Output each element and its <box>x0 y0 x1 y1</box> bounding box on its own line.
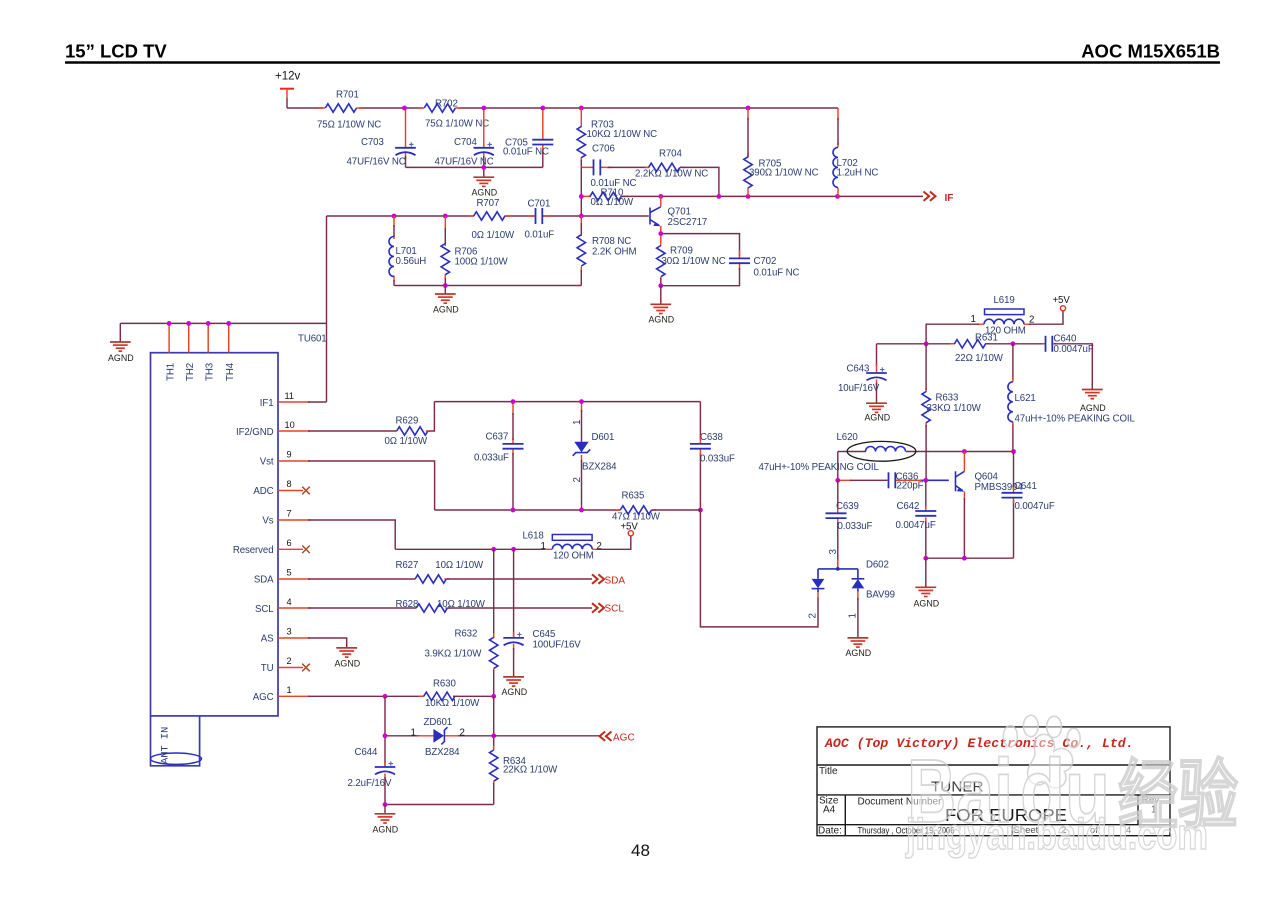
svg-text:15” LCD TV: 15” LCD TV <box>65 41 167 62</box>
wire TH ground rail <box>120 322 326 324</box>
watermark baidu <box>905 715 1238 859</box>
svg-text:Date:: Date: <box>818 826 842 837</box>
svg-text:D602: D602 <box>866 560 889 571</box>
wire middle box top rail <box>434 401 700 403</box>
svg-text:BAV99: BAV99 <box>866 590 895 601</box>
wire C636 to Q604 base <box>920 479 949 481</box>
svg-text:AOC M15X651B: AOC M15X651B <box>1081 41 1220 62</box>
svg-text:C637: C637 <box>486 432 509 443</box>
svg-text:jingyan.baidu.com: jingyan.baidu.com <box>905 810 1208 859</box>
svg-text:TU: TU <box>261 663 274 674</box>
wire R704 to IF line <box>680 167 719 196</box>
svg-text:2.2K OHM: 2.2K OHM <box>592 246 636 257</box>
wire C640 to ground <box>1054 344 1092 389</box>
wire R631 to C640 <box>985 343 1046 345</box>
pin 1 AGC <box>253 685 424 703</box>
wire +12v rail <box>287 107 838 109</box>
svg-text:TH2: TH2 <box>185 363 196 381</box>
capacitor C642 <box>896 480 937 558</box>
ground AGND under C645 <box>502 677 528 697</box>
svg-text:AGND: AGND <box>108 353 134 363</box>
svg-text:R629: R629 <box>396 415 419 426</box>
wire R632/R634 vertical <box>493 696 495 750</box>
svg-text:C645: C645 <box>533 629 556 640</box>
transistor Q701 <box>650 196 707 233</box>
svg-text:C638: C638 <box>700 432 723 443</box>
svg-text:SDA: SDA <box>605 575 626 586</box>
svg-text:1: 1 <box>287 685 292 695</box>
svg-text:ANT IN: ANT IN <box>160 727 172 764</box>
svg-text:47uH+-10% PEAKING COIL: 47uH+-10% PEAKING COIL <box>759 462 880 473</box>
wire R629 to box top rail <box>429 402 434 431</box>
resistor R709 <box>657 234 726 286</box>
pin 6 Reserved no-connect <box>233 538 310 556</box>
svg-text:L620: L620 <box>837 432 859 443</box>
wire SCL <box>448 607 592 609</box>
svg-text:C639: C639 <box>836 501 859 512</box>
resistor R633 <box>922 344 982 481</box>
svg-text:48: 48 <box>631 841 650 860</box>
svg-text:6: 6 <box>287 538 292 548</box>
ground AGND for TH pins <box>108 323 134 362</box>
power +12v <box>275 71 301 109</box>
resistor R702 <box>418 99 489 130</box>
svg-text:+5V: +5V <box>621 522 639 533</box>
svg-text:C706: C706 <box>592 144 615 155</box>
pin 10 IF2/GND <box>236 420 397 438</box>
svg-text:1.2uH NC: 1.2uH NC <box>837 167 879 178</box>
svg-text:10KΩ 1/10W: 10KΩ 1/10W <box>425 698 480 709</box>
svg-text:0.0047uF: 0.0047uF <box>1054 344 1094 355</box>
pin 8 ADC no-connect <box>253 479 309 497</box>
svg-text:IF1: IF1 <box>260 398 274 409</box>
svg-text:30Ω 1/10W NC: 30Ω 1/10W NC <box>662 256 726 267</box>
wire C638 node down to D602 <box>700 510 818 627</box>
transistor Q604 <box>956 452 1024 559</box>
resistor R629 <box>385 415 431 447</box>
resistor R704 <box>635 149 708 180</box>
ferrite bead L619 <box>971 295 1035 337</box>
svg-text:390Ω 1/10W NC: 390Ω 1/10W NC <box>749 167 819 178</box>
svg-text:10KΩ 1/10W NC: 10KΩ 1/10W NC <box>587 129 658 140</box>
net AGC arrow <box>600 732 635 744</box>
svg-text:ADC: ADC <box>253 486 273 497</box>
svg-text:22Ω 1/10W: 22Ω 1/10W <box>955 353 1004 364</box>
svg-text:47UF/16V NC: 47UF/16V NC <box>347 157 406 168</box>
svg-text:AGND: AGND <box>649 314 675 324</box>
wire middle box bottom rail <box>435 509 621 511</box>
svg-text:AGND: AGND <box>1080 403 1106 413</box>
wire L619 pin1 to R631 node <box>926 324 979 344</box>
capacitor C641 <box>1002 452 1055 559</box>
svg-text:C703: C703 <box>361 137 384 148</box>
svg-text:D601: D601 <box>592 432 615 443</box>
capacitor C704 <box>435 108 495 168</box>
svg-text:SCL: SCL <box>255 604 274 615</box>
svg-text:Reserved: Reserved <box>233 545 274 556</box>
tuner block TU601 <box>151 334 327 716</box>
svg-text:220pF: 220pF <box>897 481 924 492</box>
ground AGND under C704 <box>472 167 498 197</box>
pin 11 IF1 <box>260 391 327 409</box>
wire AGC node vertical left <box>384 696 386 767</box>
svg-text:2: 2 <box>808 613 819 618</box>
pin 4 SCL <box>255 597 416 615</box>
svg-text:TH1: TH1 <box>166 363 177 381</box>
svg-text:ZD601: ZD601 <box>424 717 453 728</box>
svg-text:4: 4 <box>287 597 292 607</box>
capacitor C702 <box>661 234 800 286</box>
svg-text:11: 11 <box>285 391 295 401</box>
pin TH1 <box>166 321 177 381</box>
ground AGND under Q604 rail <box>914 558 940 608</box>
net IF output arrow <box>924 192 954 204</box>
svg-text:100Ω 1/10W: 100Ω 1/10W <box>455 257 509 268</box>
zener diode ZD601 <box>385 717 494 758</box>
svg-text:SDA: SDA <box>254 574 274 585</box>
svg-text:IF: IF <box>945 193 954 204</box>
svg-text:1: 1 <box>572 420 583 425</box>
svg-text:9: 9 <box>287 450 292 460</box>
svg-text:AGND: AGND <box>865 413 891 423</box>
svg-text:C701: C701 <box>528 199 551 210</box>
svg-text:3.9KΩ 1/10W: 3.9KΩ 1/10W <box>425 648 483 659</box>
capacitor C640 <box>1042 334 1094 355</box>
svg-text:C644: C644 <box>355 747 378 758</box>
wire vertical to R632 <box>493 549 495 637</box>
inductor L702 <box>833 108 878 196</box>
wire vertical to C645 <box>513 549 515 638</box>
svg-text:R630: R630 <box>433 678 456 689</box>
svg-text:10uF/16V: 10uF/16V <box>838 383 880 394</box>
ground AGND under C644 <box>373 805 399 835</box>
ground AGND under R709 <box>649 286 675 325</box>
svg-text:AGND: AGND <box>914 599 940 609</box>
svg-text:10: 10 <box>285 420 295 430</box>
wire vertical from base row to tuner IF1 <box>326 216 328 402</box>
svg-text:R708 NC: R708 NC <box>592 236 631 247</box>
svg-text:0.0047uF: 0.0047uF <box>896 520 936 531</box>
svg-text:2.2uF/16V: 2.2uF/16V <box>348 778 392 789</box>
svg-text:33KΩ 1/10W: 33KΩ 1/10W <box>927 403 982 414</box>
svg-text:2: 2 <box>287 656 292 666</box>
dual diode D602 BAV99 <box>808 549 895 619</box>
svg-text:L619: L619 <box>994 295 1015 306</box>
pin 7 Vs <box>262 509 395 550</box>
resistor R706 <box>441 216 508 286</box>
wire AGC bottom rail <box>385 804 494 806</box>
svg-text:C702: C702 <box>754 256 777 267</box>
net SDA arrow <box>592 574 625 586</box>
wire AGC net long <box>494 735 600 737</box>
svg-text:R702: R702 <box>435 99 458 110</box>
inductor L701 <box>389 216 426 286</box>
svg-text:BZX284: BZX284 <box>582 462 617 473</box>
svg-text:0.033uF: 0.033uF <box>700 453 735 464</box>
inductor L620 peaking coil <box>759 432 1014 473</box>
svg-text:1: 1 <box>541 541 546 552</box>
svg-text:0Ω 1/10W: 0Ω 1/10W <box>591 197 634 208</box>
junction dots base row <box>392 214 397 219</box>
svg-text:75Ω 1/10W NC: 75Ω 1/10W NC <box>425 119 489 130</box>
resistor R635 <box>612 491 661 523</box>
net SCL arrow <box>592 603 624 614</box>
inductor L621 <box>1008 344 1136 452</box>
wire R635 to C638 <box>652 509 701 511</box>
pin TH4 <box>225 321 236 381</box>
svg-text:TU601: TU601 <box>298 334 327 345</box>
svg-text:AGND: AGND <box>502 687 528 697</box>
svg-text:2: 2 <box>460 728 465 739</box>
wire Q604 bottom rail <box>926 557 1014 559</box>
svg-text:0.01uF NC: 0.01uF NC <box>754 267 800 278</box>
svg-text:AGND: AGND <box>335 658 361 668</box>
svg-text:0.01uF NC: 0.01uF NC <box>503 146 549 157</box>
svg-text:R707: R707 <box>477 198 500 209</box>
ground AGND under C643 <box>865 403 891 422</box>
svg-text:2.2KΩ 1/10W NC: 2.2KΩ 1/10W NC <box>635 169 708 180</box>
capacitor C645 <box>503 629 581 676</box>
wire IF line <box>621 195 923 197</box>
resistor R627 <box>396 560 485 583</box>
svg-text:AGND: AGND <box>373 825 399 835</box>
capacitor C643 <box>838 344 887 403</box>
svg-text:R632: R632 <box>455 629 478 640</box>
svg-text:R635: R635 <box>622 491 645 502</box>
wire L620 left down to C636 row <box>837 452 839 481</box>
svg-text:75Ω 1/10W NC: 75Ω 1/10W NC <box>317 120 381 131</box>
svg-text:C643: C643 <box>847 364 870 375</box>
ground AGND at AS pin <box>335 648 361 668</box>
ground AGND under D602 <box>846 638 872 658</box>
wire base row <box>327 215 475 217</box>
pin TH2 <box>185 321 196 381</box>
resistor R628 <box>396 599 486 612</box>
resistor R703 <box>577 108 657 167</box>
capacitor C639 <box>826 480 873 569</box>
svg-text:R701: R701 <box>336 90 359 101</box>
svg-text:R628: R628 <box>396 599 419 610</box>
resistor R705 <box>744 108 819 196</box>
svg-text:TH4: TH4 <box>225 362 236 381</box>
svg-text:R627: R627 <box>396 560 419 571</box>
capacitor C638 <box>690 402 735 510</box>
svg-text:100UF/16V: 100UF/16V <box>533 640 582 651</box>
zener diode D601 <box>572 402 617 510</box>
svg-text:0.033uF: 0.033uF <box>838 521 873 532</box>
svg-text:BZX284: BZX284 <box>425 747 460 758</box>
wire R630 to R632 node <box>453 695 494 697</box>
svg-text:0.033uF: 0.033uF <box>474 453 509 464</box>
svg-text:0Ω 1/10W: 0Ω 1/10W <box>472 230 515 241</box>
svg-text:22KΩ 1/10W: 22KΩ 1/10W <box>503 765 558 776</box>
svg-text:R631: R631 <box>975 332 998 343</box>
svg-text:Vs: Vs <box>262 515 273 526</box>
svg-text:L621: L621 <box>1015 393 1036 404</box>
svg-text:AS: AS <box>261 633 274 644</box>
wire SDA <box>447 578 592 580</box>
svg-text:2: 2 <box>597 541 602 552</box>
wire cap bottom rail <box>406 166 543 168</box>
svg-text:0.56uH: 0.56uH <box>396 256 427 267</box>
pin 3 AS <box>261 627 347 648</box>
antenna box ANT IN <box>151 716 202 766</box>
svg-text:AGC: AGC <box>253 692 274 703</box>
resistor R710 <box>581 187 634 208</box>
ground AGND under R706 <box>433 286 459 315</box>
svg-text:IF2/GND: IF2/GND <box>236 427 274 438</box>
svg-text:R704: R704 <box>659 149 682 160</box>
svg-text:3: 3 <box>828 549 839 555</box>
resistor R707 <box>468 198 515 241</box>
capacitor C637 <box>474 402 524 510</box>
svg-text:+12v: +12v <box>275 71 301 83</box>
svg-text:1: 1 <box>411 728 416 739</box>
svg-text:2: 2 <box>572 477 583 482</box>
svg-text:120 OHM: 120 OHM <box>553 550 594 561</box>
svg-text:2SC2717: 2SC2717 <box>668 217 708 228</box>
svg-text:A4: A4 <box>823 805 836 816</box>
svg-text:TH3: TH3 <box>205 363 216 381</box>
svg-text:3: 3 <box>287 627 292 637</box>
svg-text:0Ω 1/10W: 0Ω 1/10W <box>385 436 428 447</box>
capacitor C706 <box>581 144 648 190</box>
resistor R631 <box>950 332 1004 364</box>
resistor R701 <box>317 90 381 131</box>
capacitor C644 <box>348 747 396 805</box>
capacitor C636 <box>838 471 924 491</box>
svg-text:+5V: +5V <box>1053 295 1071 306</box>
svg-text:Vst: Vst <box>260 456 274 467</box>
svg-text:47uH+-10% PEAKING COIL: 47uH+-10% PEAKING COIL <box>1015 414 1136 425</box>
junction dots IF line <box>579 194 584 199</box>
power +5V at L619 <box>1029 295 1070 324</box>
svg-text:Title: Title <box>819 766 838 777</box>
pin 5 SDA <box>254 568 415 586</box>
pin 9 Vst <box>260 450 435 511</box>
svg-text:7: 7 <box>287 509 292 519</box>
capacitor C703 <box>347 108 416 168</box>
capacitor C701 <box>525 199 555 241</box>
wire D602 pin1 to ground <box>857 598 859 637</box>
resistor R632 <box>425 629 498 697</box>
svg-text:R709: R709 <box>670 245 693 256</box>
wire left bottom rail <box>394 285 581 287</box>
ground AGND under C640 <box>1080 390 1106 413</box>
resistor R634 <box>490 746 559 805</box>
capacitor C705 <box>503 108 553 167</box>
svg-text:C642: C642 <box>897 501 920 512</box>
svg-text:AGND: AGND <box>433 305 459 315</box>
svg-text:L618: L618 <box>523 531 544 542</box>
svg-text:Q701: Q701 <box>668 207 691 218</box>
header underline <box>65 61 1220 64</box>
svg-text:C641: C641 <box>1014 481 1037 492</box>
svg-text:1: 1 <box>848 613 859 618</box>
junction dots top rail <box>402 106 407 111</box>
resistor R630 <box>419 678 480 709</box>
svg-text:AGND: AGND <box>472 187 498 197</box>
svg-text:8: 8 <box>287 479 292 489</box>
svg-text:5: 5 <box>287 568 292 578</box>
svg-text:AGC: AGC <box>613 732 635 743</box>
pin TH3 <box>205 321 216 381</box>
svg-text:AGND: AGND <box>846 648 872 658</box>
svg-text:SCL: SCL <box>605 604 625 615</box>
vertical wire node R703/C706 down <box>580 167 582 216</box>
resistor R708 <box>577 216 636 286</box>
svg-text:Q604: Q604 <box>975 471 999 482</box>
title block <box>817 727 1170 836</box>
power +5V at L618 <box>597 522 638 550</box>
svg-text:10Ω 1/10W: 10Ω 1/10W <box>435 560 484 571</box>
svg-text:0.0047uF: 0.0047uF <box>1015 501 1055 512</box>
wire R631 row <box>877 343 955 345</box>
wire L618 row from Vs <box>395 548 545 550</box>
pin 2 TU no-connect <box>261 656 310 674</box>
svg-text:0.01uF: 0.01uF <box>525 230 555 241</box>
svg-text:C704: C704 <box>454 137 477 148</box>
ferrite bead L618 <box>523 531 602 562</box>
